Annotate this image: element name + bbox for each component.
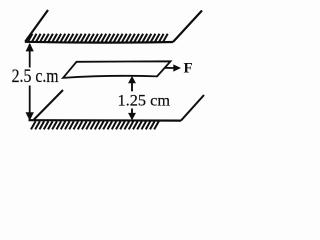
svg-text:1.25 cm: 1.25 cm <box>118 93 171 110</box>
svg-text:F: F <box>184 61 193 77</box>
svg-text:2.5 c.m: 2.5 c.m <box>12 67 60 87</box>
